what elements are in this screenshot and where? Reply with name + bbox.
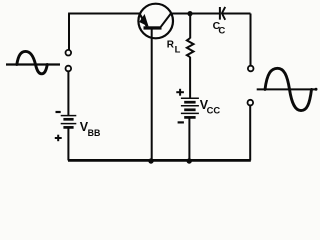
resistor RL — [187, 38, 194, 57]
polarity plus of VCC — [176, 89, 184, 96]
label VCC — [200, 98, 221, 116]
label RL — [167, 39, 181, 54]
capacitor CC (straight + curved plate) — [220, 7, 225, 20]
node: collector / RL junction dot — [187, 11, 192, 16]
wire: bottom rail — [68, 159, 251, 162]
terminal: output top — [248, 66, 254, 72]
wire: resistor RL down to battery VCC — [189, 57, 191, 98]
wire: output bottom terminal down to bottom rail — [249, 105, 251, 160]
node: base / bottom rail junction dot — [148, 158, 153, 163]
wire: junction down to resistor RL — [189, 14, 191, 39]
terminal: input top — [66, 50, 72, 56]
svg-text:L: L — [175, 44, 181, 55]
wire: capacitor to top-right corner and down to output terminal — [222, 14, 251, 66]
svg-text:R: R — [167, 39, 175, 50]
wire: collector to capacitor (top rail right) — [172, 13, 220, 15]
node: VCC / bottom rail junction dot — [187, 158, 192, 163]
wire: transistor base lead down to bottom rail — [151, 29, 153, 160]
polarity minus of VBB — [56, 111, 61, 113]
output signal sine-wave — [257, 68, 317, 110]
wire: battery VBB down to bottom rail — [67, 127, 69, 160]
polarity minus of VCC — [178, 121, 184, 123]
svg-text:CC: CC — [207, 104, 221, 115]
svg-text:BB: BB — [88, 128, 101, 138]
output line end blob — [315, 88, 318, 91]
terminal: input bottom — [66, 66, 72, 72]
polarity plus of VBB — [55, 135, 62, 142]
label CC — [213, 20, 226, 37]
terminal: output bottom — [248, 100, 254, 106]
input signal sine-wave source — [6, 51, 60, 73]
transistor Q1 (PNP, common-base) — [138, 4, 173, 39]
label VBB — [80, 120, 101, 138]
wire: top-left vertical from input terminal up to top rail — [68, 14, 70, 50]
wire: top horizontal to transistor emitter — [68, 13, 140, 15]
wire: input bottom terminal down to battery VBB — [67, 71, 69, 115]
battery VBB — [61, 116, 77, 128]
battery VCC — [181, 98, 199, 117]
svg-text:C: C — [218, 25, 225, 36]
wire: battery VCC down to bottom rail — [188, 117, 190, 160]
